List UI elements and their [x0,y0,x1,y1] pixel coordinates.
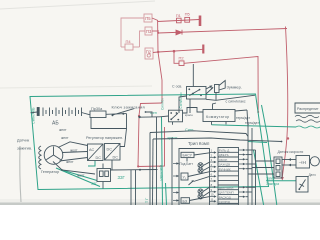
fuse F2 [179,61,184,66]
svg-text:П3: П3 [146,29,152,34]
trip comp Uo box [181,173,188,180]
label column box [218,148,239,206]
svg-text:терм/дат: терм/дат [245,121,259,125]
label AB [52,121,59,127]
teal wire door switch [266,180,296,182]
trip comp arrow sym [189,180,194,185]
svg-text:П1: П1 [176,13,182,18]
svg-text:Датч: Датч [309,173,316,177]
svg-text:желт: желт [66,160,74,164]
label row4 [219,163,230,167]
label DC3 [113,156,119,160]
label sosv [172,85,182,89]
wire krasn long [153,138,282,142]
diode wire long [158,29,287,34]
trip comp lamp2 [198,168,203,173]
label zazhgara [266,182,279,186]
label generator [41,170,59,174]
wire P3 branch [140,31,146,47]
label trip komp [188,141,210,146]
pencil page edge left [20,146,21,202]
bus vertical 3 [255,150,257,205]
label row5 [219,167,231,171]
label Pr30a [91,107,103,111]
svg-text:Зажгара: Зажгара [266,182,279,186]
label zazhigan [17,147,32,151]
svg-text:С осв.: С осв. [172,85,182,89]
teal vertical bottom mid2 [166,183,167,205]
svg-text:AC: AC [89,148,95,152]
label krasn mini [185,113,193,117]
label pod batg [180,162,194,166]
label raspredel [297,107,319,111]
svg-text:желт: желт [59,128,67,132]
wire key drop [91,114,127,147]
svg-text:Сигн/АКБ: Сигн/АКБ [32,107,36,124]
trip comp left pins [173,162,179,201]
svg-text:красн: красн [185,113,193,117]
wire s sign/klaks [206,95,255,100]
arrowhead red right [281,177,284,180]
relay R2 [169,110,183,122]
label P1 [176,13,182,18]
pins group1 [210,151,217,202]
wire relay R1 arrow1 [206,86,213,90]
label sign mid [185,128,193,132]
svg-text:Сигн/Клакс: Сигн/Клакс [179,92,183,109]
label P2a [146,49,152,54]
label krasn-bel vertical [159,165,163,180]
svg-text:Трип Комп: Трип Комп [188,141,210,146]
terminal bar top [199,16,202,27]
label 33G [118,175,126,180]
vertical drop v172 [171,138,173,206]
label datchik [17,139,29,143]
svg-text:Регулятор напряжен.: Регулятор напряжен. [86,136,123,140]
buzzer speaker [215,81,226,93]
label term dat 2 [245,121,259,125]
label sign/klaks vertical [161,98,165,110]
label ZZG 2 [91,182,97,186]
wire key bus right [160,108,203,117]
ignition key switch [113,109,161,118]
generator bottom wire [53,162,95,175]
label zhelt1 [61,136,69,140]
svg-text:РУЛЬ Д: РУЛЬ Д [219,149,230,153]
svg-text:П4: П4 [126,39,132,44]
label P4 [126,39,132,44]
label sign/klaks vertical 2 [179,92,183,109]
bus row connectors [246,150,256,197]
red main bus vertical [158,21,162,104]
key contact 2 [145,111,152,116]
svg-text:ЗЗГ: ЗЗГ [118,175,126,180]
wire relay R1 top feed [192,64,194,87]
battery AB terminal [37,108,39,116]
wire sign long [150,131,248,137]
junction bus mid [157,50,175,53]
fuse Pr30a [90,111,106,118]
trip pin numbers [211,149,214,202]
dcdc box [105,144,121,161]
wire red drop lower [138,116,165,167]
vertical drop v150 [149,133,151,206]
label regulator [86,136,123,140]
label row2 [219,153,229,157]
label zhelt0 [59,128,67,132]
wire P2 drop [174,51,179,63]
label P5b [185,12,191,17]
acdc box [88,144,104,161]
svg-text:желт: желт [77,174,85,178]
svg-text:красн/бел: красн/бел [159,165,163,180]
svg-text:П2: П2 [179,56,185,61]
label Uo [183,175,187,179]
label DC1 [96,156,102,160]
label TG vertical [145,198,149,203]
label DC2 [107,148,113,152]
trip comp right pins [173,149,246,203]
junction red right [287,137,289,139]
label B3 [183,199,188,203]
bus vertical 2 [251,128,253,205]
junction key [112,113,141,119]
svg-text:П5: П5 [185,12,191,17]
svg-text:Ключ зажигания: Ключ зажигания [112,105,145,110]
svg-text:ДВЕРЬ: ДВЕРЬ [219,153,229,157]
scan crease top [0,1,155,9]
generator output wires [58,142,88,161]
label zager [266,177,275,181]
trip comp internal wires [187,153,210,201]
label kommutator [206,115,230,119]
label row1 [219,149,230,153]
dcdc output wire [111,160,113,170]
speed sensor wires [248,161,274,174]
svg-text:ЗЗГ: ЗЗГ [91,182,97,186]
svg-text:БАСУ: БАСУ [183,154,193,158]
trip comp B3 box [181,198,190,204]
pins column right [239,149,246,198]
label P5 [145,16,151,21]
svg-text:желт: желт [70,149,78,153]
wire relay R2 bottom [172,122,174,125]
svg-text:Датчик скорости: Датчик скорости [278,150,304,154]
junction ignition [138,115,140,117]
svg-text:Зуммер.: Зуммер. [227,85,242,90]
speed sensor connector box [274,157,282,178]
scan crease middle [0,86,152,88]
kommutator top pin [213,103,217,110]
svg-text:⊣H: ⊣H [299,160,306,165]
wire relay R1 left [179,96,187,113]
label zhelt4 [77,174,85,178]
kommutator box [203,110,235,122]
fuse block top stub [102,164,104,169]
label P2b [179,56,185,61]
red labels [126,12,191,61]
fuse block drop [102,182,104,189]
wire box2 to bus [152,30,159,32]
svg-text:П5: П5 [145,16,151,21]
svg-text:DC: DC [107,148,113,152]
raspredel box [295,103,320,113]
label zhelt2 [70,149,78,153]
generator circle [44,146,63,165]
wire fuse feed top [121,18,144,47]
wire speed row [281,141,283,143]
teal diagonal wire 2 [56,168,100,187]
vertical drop v131 [130,170,132,205]
svg-text:БЗ: БЗ [183,199,188,203]
hall sensor box [296,156,310,169]
label row6 [219,186,234,190]
label row9 [219,200,230,204]
terminal bar mid [202,45,204,54]
hall wheel circle [310,157,319,166]
svg-text:Коммутатор: Коммутатор [206,115,230,119]
door switch box [296,177,308,193]
svg-text:СКОР/Д: СКОР/Д [219,200,230,204]
junction y170 [139,169,141,171]
wire buzzer drop [215,93,217,101]
wire ignition feed [139,103,162,116]
label row3 [219,158,228,162]
label column row lines [218,152,239,203]
red right long vertical [282,27,287,178]
svg-text:Распределит: Распределит [297,107,319,111]
fuse box P5 [144,14,152,22]
svg-text:DC: DC [113,156,119,160]
label sign small [150,111,157,115]
ignition sensor coil [39,146,41,169]
wire battery left [31,111,38,114]
svg-text:зажигив.: зажигив. [17,147,32,151]
trip comp lamp4 [198,194,203,199]
svg-text:Датчик: Датчик [17,139,29,143]
wire relay R1 bottom drop [189,99,191,113]
svg-text:Т Г: Т Г [145,198,149,203]
svg-text:ЗАЖ/ДВ: ЗАЖ/ДВ [219,163,230,167]
junction diode bus [157,32,159,34]
wire fuse to key [106,113,127,116]
trip comp BASU box [181,152,194,157]
teal drop regulator [88,161,95,167]
label zhelt3 [66,160,74,164]
label zummer [227,85,242,90]
label datch door [309,173,316,177]
wire bar branch [158,49,203,52]
teal diagonal lower [254,150,264,205]
kommutator bottom pins [212,122,227,125]
vertical drop v153 [152,139,155,205]
teal wavy term-dat continuation [296,126,320,128]
trip comp box [179,149,210,206]
label term dat 1 [236,116,250,120]
fuse block small [97,169,111,182]
svg-text:ДАТ/ТЕМП: ДАТ/ТЕМП [219,191,234,195]
trip comp lamp1 [198,163,203,168]
junction red lower [137,165,139,167]
label datchik skorosti [278,150,304,154]
label sign/akb vertical [32,107,36,124]
label s sign klaks [226,99,246,103]
svg-text:П2: П2 [146,49,152,54]
svg-text:терм/дат: терм/дат [236,116,250,120]
svg-text:РАСХОД: РАСХОД [219,195,231,199]
label kluch [112,105,145,110]
bus vertical 1 [247,126,249,205]
green slanted wire right [262,105,277,205]
svg-text:У₀: У₀ [183,175,187,179]
hall sensor wires [282,158,296,166]
battery AB cells [43,108,82,117]
teal vertical bottom mid [162,117,163,205]
wire relay R1 arrow2 [206,87,213,94]
teal labels [32,92,280,203]
svg-text:ДАТ/ТОПЛ: ДАТ/ТОПЛ [219,186,234,190]
label P3 [146,29,152,34]
fuse P4 [121,44,140,50]
dark labels [17,85,319,204]
vertical drop v157 [156,117,158,205]
wire battery right [82,113,91,115]
svg-text:Пр30а: Пр30а [91,107,103,111]
svg-text:Сигн/Кл: Сигн/Кл [161,98,165,110]
teal diagonal generator wire [62,170,97,181]
label AC [89,148,95,152]
svg-text:РУЧНИК: РУЧНИК [219,167,231,171]
trip comp lamp3 [198,189,203,194]
fuse box P2 [145,48,153,59]
label row8 [219,195,231,199]
big green box border [30,94,269,190]
wire box3 to bus [153,51,158,54]
teal wire term-dat [212,125,297,127]
svg-text:желт: желт [61,136,69,140]
wire y170 long [111,169,158,172]
fuse row top wire [158,20,199,22]
kommutator right stub [235,110,248,127]
label BASU [183,154,193,158]
teal wire to speed sensor [248,142,267,143]
wire P2 long to right [184,57,259,114]
wavy lines raspredel [295,115,320,122]
svg-text:Генератор: Генератор [41,170,59,174]
fuse F5 [185,17,190,22]
svg-text:ОБОР.: ОБОР. [219,158,228,162]
label row7 [219,191,234,195]
vertical drop v135 [135,170,137,205]
svg-text:АБ: АБ [52,121,59,127]
fuse box P3 [145,27,152,35]
svg-text:Под.Батт: Под.Батт [180,162,194,166]
svg-text:DC: DC [96,156,102,160]
wire box1 to bus [152,18,158,21]
svg-text:с сигн/клакс: с сигн/клакс [226,99,246,103]
relay R1 [187,87,207,100]
diode D1 [176,30,182,35]
label krasn [168,136,178,140]
svg-text:сигн: сигн [150,111,157,115]
scan shadow bottom [0,199,320,205]
fuse F1 [177,18,182,23]
